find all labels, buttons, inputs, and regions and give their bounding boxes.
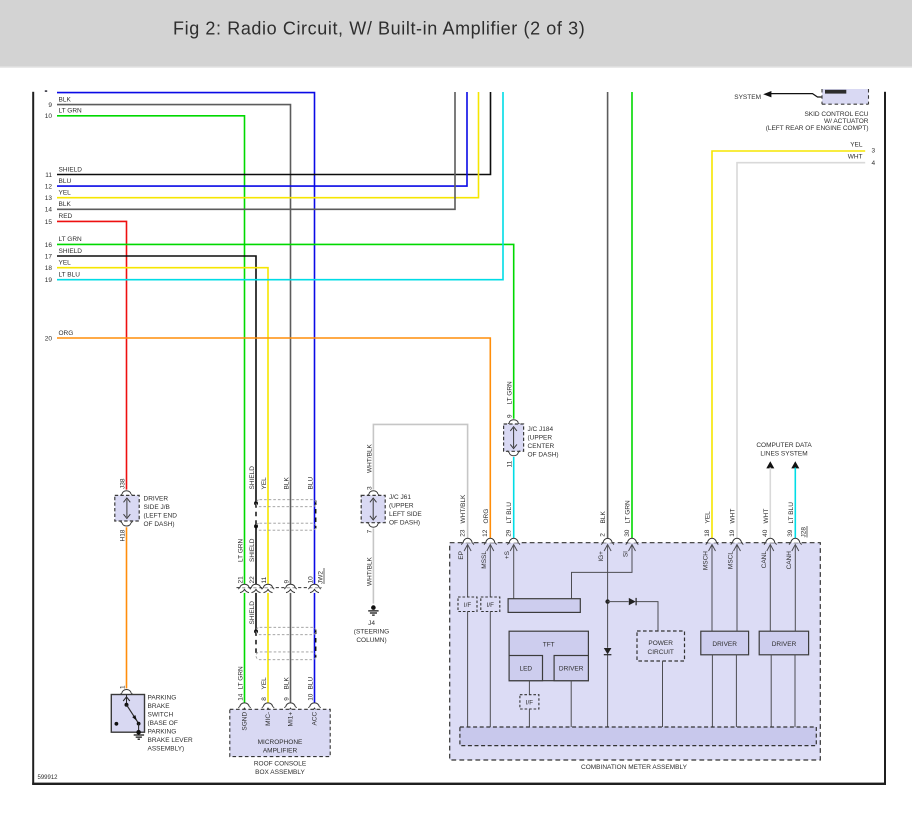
internal wire CANL with arrow xyxy=(767,545,774,632)
connector arc into J/C J61 xyxy=(367,491,379,496)
svg-text:SHIELD: SHIELD xyxy=(249,538,256,562)
connector arc into J/C J184 xyxy=(508,420,520,425)
svg-text:J4: J4 xyxy=(368,620,375,627)
meter entry arc pin 19 xyxy=(731,538,743,544)
ground J4 steering column xyxy=(368,605,378,615)
svg-text:BLK: BLK xyxy=(283,677,290,690)
meter entry arc pin 12 xyxy=(484,538,496,544)
label DRIVER SIDE J/B (LEFT END OF DASH) xyxy=(144,496,178,529)
connector arc pin 10 xyxy=(308,703,320,711)
svg-text:EP: EP xyxy=(458,551,465,560)
svg-text:J28: J28 xyxy=(801,527,808,538)
svg-text:12: 12 xyxy=(482,529,489,537)
connector arc out of driver side J/B xyxy=(120,521,132,526)
svg-text:LT GRN: LT GRN xyxy=(59,236,83,243)
svg-text:LT GRN: LT GRN xyxy=(237,538,244,562)
meter wire color labels above pins xyxy=(460,494,795,524)
junction dot on IG+ xyxy=(605,599,609,603)
wire 3 YEL from skid ecu to meter pin 18 xyxy=(712,141,876,538)
svg-text:11: 11 xyxy=(261,576,268,583)
LT GRN label and pin 9 above J/C J184 xyxy=(506,381,513,418)
svg-text:COLUMN): COLUMN) xyxy=(356,637,386,644)
I/F box 2 xyxy=(481,597,500,727)
arrow from computer data lines (CANH) xyxy=(791,461,799,538)
svg-text:23: 23 xyxy=(459,529,466,537)
wire labels above upper shield section xyxy=(249,466,314,490)
svg-text:CANL: CANL xyxy=(761,551,768,569)
svg-text:BLK: BLK xyxy=(59,96,72,103)
lower shield section: drain dot xyxy=(254,629,258,633)
DRIVER box left xyxy=(701,631,749,727)
svg-text:(UPPER: (UPPER xyxy=(528,435,553,442)
svg-text:14: 14 xyxy=(45,207,53,214)
label SYSTEM xyxy=(734,94,761,101)
label ROOF CONSOLE BOX ASSEMBLY xyxy=(254,760,307,776)
svg-text:TFT: TFT xyxy=(543,642,555,649)
amplifier pin numbers 14 8 9 10 xyxy=(237,693,314,701)
svg-text:LT GRN: LT GRN xyxy=(625,500,632,524)
label J/C J184 (UPPER CENTER OF DASH) xyxy=(528,426,559,459)
upper shield capsule 2 xyxy=(256,523,316,530)
svg-text:LT BLU: LT BLU xyxy=(506,502,513,524)
svg-text:MIC-: MIC- xyxy=(265,712,272,726)
svg-text:20: 20 xyxy=(45,335,53,342)
svg-text:SGND: SGND xyxy=(241,711,248,730)
svg-text:19: 19 xyxy=(45,277,53,284)
wire ORG from H18 down to parking brake switch pin 1 xyxy=(126,527,128,688)
svg-text:RED: RED xyxy=(59,213,73,220)
svg-text:BRAKE: BRAKE xyxy=(148,703,171,710)
svg-text:JW2: JW2 xyxy=(318,571,325,584)
combination meter assembly box xyxy=(450,543,821,760)
svg-text:YEL: YEL xyxy=(59,190,72,197)
connector arc out of J/C J61 xyxy=(367,522,379,527)
SHIELD wire below JW2 xyxy=(249,593,256,631)
svg-text:17: 17 xyxy=(45,253,53,260)
svg-text:BLU: BLU xyxy=(307,677,314,690)
svg-text:21: 21 xyxy=(237,576,244,584)
svg-text:12: 12 xyxy=(45,184,53,191)
wire LT BLU from J184 to meter pin 29 xyxy=(513,457,515,538)
connector arc out of J/C J184 xyxy=(508,451,520,456)
wire 18 YEL: left edge to x268 then down to MIC- pin 8 xyxy=(45,260,268,704)
pin 1 label xyxy=(119,685,126,689)
svg-text:H18: H18 xyxy=(119,529,126,541)
upper shield section: drain junction dots xyxy=(254,501,258,528)
svg-text:SHIELD: SHIELD xyxy=(249,601,256,625)
svg-text:ORG: ORG xyxy=(59,330,74,337)
JW2 connector pair on BLU xyxy=(308,584,320,592)
svg-text:11: 11 xyxy=(45,172,52,179)
svg-text:AMPLIFIER: AMPLIFIER xyxy=(263,748,298,755)
svg-text:15: 15 xyxy=(45,219,53,226)
svg-text:CIRCUIT: CIRCUIT xyxy=(648,649,674,656)
svg-text:SYSTEM: SYSTEM xyxy=(734,94,761,101)
svg-text:39: 39 xyxy=(787,529,794,537)
svg-text:I/F: I/F xyxy=(526,699,533,706)
upper shield dashed drain wire xyxy=(256,501,316,529)
svg-text:SI: SI xyxy=(623,551,630,557)
svg-text:SHIELD: SHIELD xyxy=(249,466,256,490)
wire LT GRN from top to meter pin 30 xyxy=(631,92,633,538)
svg-text:YEL: YEL xyxy=(59,260,72,267)
meter entry arc pin 40 xyxy=(764,538,776,544)
svg-text:DRIVER: DRIVER xyxy=(144,496,169,503)
JW2 label xyxy=(318,568,325,584)
internal wire MSCL with arrow xyxy=(734,545,741,632)
svg-text:J38: J38 xyxy=(119,478,126,489)
JW2 connector pair on YEL xyxy=(262,584,274,592)
wire 14 BLK: left edge to x455 then up to top xyxy=(45,92,455,214)
svg-text:YEL: YEL xyxy=(261,477,268,490)
svg-text:SHIELD: SHIELD xyxy=(59,248,83,255)
svg-text:MSSL: MSSL xyxy=(481,551,488,569)
meter entry arc pin 2 xyxy=(601,538,613,544)
svg-text:MSCH: MSCH xyxy=(703,551,710,570)
svg-text:I/F: I/F xyxy=(464,602,471,609)
lower shield dashed drain xyxy=(256,630,316,658)
svg-text:I/F: I/F xyxy=(487,602,494,609)
svg-text:MI1+: MI1+ xyxy=(287,712,294,727)
svg-text:LINES SYSTEM: LINES SYSTEM xyxy=(760,450,807,457)
svg-text:Fig 2: Radio Circuit, W/ Built: Fig 2: Radio Circuit, W/ Built-in Amplif… xyxy=(173,19,585,39)
wire BLK from top to meter pin 2 xyxy=(607,92,609,538)
POWER CIRCUIT box xyxy=(637,631,685,727)
meter pin numbers xyxy=(459,529,794,537)
svg-text:9: 9 xyxy=(283,697,290,701)
wire 15 RED: left edge to x126.5 then down to J38 xyxy=(45,213,127,489)
svg-text:WHT: WHT xyxy=(848,154,863,161)
pin 11 below J184 xyxy=(506,460,513,467)
wire 8 BLU: left edge to x314.5 then down to ACC pin 10 xyxy=(45,90,315,703)
arrow to skid control ecu xyxy=(763,91,822,97)
svg-text:PARKING: PARKING xyxy=(148,729,177,736)
wire 10 LT GRN: left edge to x244.5 then down to SGND pin 21 xyxy=(45,108,245,704)
I/F box 1 xyxy=(458,597,477,727)
svg-text:4: 4 xyxy=(872,160,876,167)
svg-text:+S: +S xyxy=(504,550,511,559)
unlabeled block xyxy=(508,599,580,613)
J/C J184 box xyxy=(504,424,524,451)
svg-text:OF DASH): OF DASH) xyxy=(144,521,175,528)
diode down on IG+ line xyxy=(604,648,612,655)
svg-text:YEL: YEL xyxy=(261,677,268,690)
svg-text:SHIELD: SHIELD xyxy=(59,166,83,173)
svg-text:BLK: BLK xyxy=(59,201,72,208)
wire 20 ORG: left edge to x490.6 then down to MSSL pin 12 xyxy=(45,330,491,538)
svg-text:SWITCH: SWITCH xyxy=(148,712,174,719)
svg-text:YEL: YEL xyxy=(850,141,863,148)
wire LED to I/F box 3 xyxy=(528,681,530,695)
svg-text:3: 3 xyxy=(872,147,876,154)
svg-text:LT GRN: LT GRN xyxy=(237,666,244,690)
svg-text:COMBINATION METER ASSEMBLY: COMBINATION METER ASSEMBLY xyxy=(581,764,688,771)
JW2 connector pair on LT GRN xyxy=(238,584,250,592)
connector J28 label xyxy=(801,526,808,538)
svg-text:WHT: WHT xyxy=(763,509,770,524)
svg-text:LT BLU: LT BLU xyxy=(788,502,795,524)
svg-text:(LEFT END: (LEFT END xyxy=(144,513,178,520)
JW2 connector pair on SHIELD xyxy=(250,584,262,592)
svg-text:WHT: WHT xyxy=(730,509,737,524)
svg-text:BLK: BLK xyxy=(283,477,290,490)
svg-text:ASSEMBLY): ASSEMBLY) xyxy=(148,746,185,753)
svg-text:DRIVER: DRIVER xyxy=(772,641,797,648)
pin 7 below J61 xyxy=(366,529,373,533)
svg-text:CANH: CANH xyxy=(786,551,793,570)
connector J38 label xyxy=(119,478,126,489)
title bar xyxy=(0,0,912,68)
WHT/BLK label and pin 3 above J61 xyxy=(366,443,373,490)
svg-text:(LEFT REAR OF ENGINE COMPT): (LEFT REAR OF ENGINE COMPT) xyxy=(766,125,869,132)
svg-text:LED: LED xyxy=(519,666,532,673)
svg-text:29: 29 xyxy=(506,529,513,537)
svg-text:POWER: POWER xyxy=(648,640,673,647)
wire WHT/BLK from J61 down to J4 xyxy=(366,528,373,603)
wire 16 LT GRN: left edge to x513.5 then down to J/C J184 xyxy=(45,236,514,419)
svg-text:BRAKE LEVER: BRAKE LEVER xyxy=(148,737,193,744)
connector arc pin 8 xyxy=(262,703,274,711)
svg-text:W/ ACTUATOR: W/ ACTUATOR xyxy=(824,118,869,125)
SHIELD wire continues to JW2 xyxy=(255,526,257,584)
wire 12 BLU: left edge to x467 then up to top xyxy=(45,92,467,191)
svg-text:ROOF CONSOLE: ROOF CONSOLE xyxy=(254,760,307,767)
svg-text:9: 9 xyxy=(506,414,513,418)
connector H18 label xyxy=(119,529,126,541)
svg-text:(UPPER: (UPPER xyxy=(389,503,414,510)
connector arc into parking brake switch xyxy=(120,690,132,695)
connector arc into driver side J/B xyxy=(120,491,132,496)
internal wire +S with arrow xyxy=(510,545,517,599)
meter entry arc pin 18 xyxy=(706,538,718,544)
microphone amplifier box xyxy=(230,709,330,756)
label COMPUTER DATA LINES SYSTEM xyxy=(756,442,812,458)
svg-text:(BASE OF: (BASE OF xyxy=(148,720,178,727)
svg-text:J/C J61: J/C J61 xyxy=(389,494,411,501)
svg-text:ORG: ORG xyxy=(483,509,490,524)
internal wire MSCH with arrow xyxy=(709,545,716,632)
J/C J61 box xyxy=(361,495,385,522)
svg-text:MSCL: MSCL xyxy=(728,551,735,569)
wire 17 SHIELD: left edge to x256 then down (shield drain) xyxy=(45,248,256,502)
wire TFT driver down xyxy=(570,681,572,727)
svg-text:SKID CONTROL ECU: SKID CONTROL ECU xyxy=(804,111,868,118)
svg-text:40: 40 xyxy=(762,529,769,537)
label SKID CONTROL ECU W/ ACTUATOR xyxy=(766,111,869,132)
svg-text:MICROPHONE: MICROPHONE xyxy=(258,739,303,746)
internal wire CANH with arrow xyxy=(792,545,799,632)
JW2 pin numbers xyxy=(237,576,314,584)
svg-text:9: 9 xyxy=(48,102,52,109)
JW2 in-line connector dashed link xyxy=(237,587,322,589)
wire labels above JW2 connector xyxy=(237,538,256,562)
wire 13 YEL: left edge to x478.5 then up to top xyxy=(45,92,479,202)
connector arc pin 9 xyxy=(284,703,296,711)
svg-text:IG+: IG+ xyxy=(598,551,605,562)
label J/C J61 (UPPER LEFT SIDE OF DASH) xyxy=(389,494,422,527)
svg-text:11: 11 xyxy=(506,460,513,467)
meter entry arc pin 30 xyxy=(626,538,638,544)
svg-text:WHT/BLK: WHT/BLK xyxy=(366,443,373,473)
connector arc pin 14 xyxy=(238,703,250,711)
meter entry arc pin 23 xyxy=(461,538,473,544)
svg-text:2: 2 xyxy=(600,533,607,537)
wire WHT/BLK from J/C J61 up and over to meter pin 23 xyxy=(373,424,467,538)
svg-text:8: 8 xyxy=(261,697,268,701)
skid control ecu box (clipped) xyxy=(822,89,869,104)
svg-text:DRIVER: DRIVER xyxy=(712,641,737,648)
svg-text:OF DASH): OF DASH) xyxy=(389,520,420,527)
svg-text:LEFT SIDE: LEFT SIDE xyxy=(389,511,422,518)
svg-text:CENTER: CENTER xyxy=(528,443,555,450)
ground at parking brake switch xyxy=(134,730,144,739)
svg-text:18: 18 xyxy=(704,529,711,537)
JW2 connector pair on BLK xyxy=(284,584,296,592)
svg-text:10: 10 xyxy=(307,693,314,701)
svg-text:7: 7 xyxy=(366,529,373,533)
svg-text:WHT/BLK: WHT/BLK xyxy=(366,556,373,586)
svg-text:LT GRN: LT GRN xyxy=(59,108,83,115)
svg-text:9: 9 xyxy=(283,580,290,584)
svg-text:WHT/BLK: WHT/BLK xyxy=(460,494,467,524)
svg-text:13: 13 xyxy=(45,195,53,202)
svg-text:BOX ASSEMBLY: BOX ASSEMBLY xyxy=(255,769,305,776)
internal wire SI with arrow and elbow xyxy=(572,545,636,599)
meter entry arc pin 29 xyxy=(508,538,520,544)
svg-text:BLU: BLU xyxy=(59,178,72,185)
meter internal pin labels xyxy=(458,550,793,570)
svg-text:YEL: YEL xyxy=(705,511,712,524)
label COMBINATION METER ASSEMBLY xyxy=(581,764,688,771)
svg-text:10: 10 xyxy=(307,576,314,584)
internal wire IG+ with arrow xyxy=(604,545,611,728)
svg-text:10: 10 xyxy=(45,113,53,120)
wire 9 BLK: left edge to x290.5 then down to MI1+ pin 9 xyxy=(48,96,290,703)
upper shield capsule 1 xyxy=(256,500,316,507)
svg-text:18: 18 xyxy=(45,265,53,272)
svg-text:SIDE J/B: SIDE J/B xyxy=(144,504,170,511)
svg-text:LT GRN: LT GRN xyxy=(506,381,513,405)
svg-text:14: 14 xyxy=(237,693,244,701)
diagram frame border xyxy=(32,92,886,785)
meter bottom rail xyxy=(460,727,816,746)
svg-text:DRIVER: DRIVER xyxy=(559,666,584,673)
wire 19 LT BLU: left edge to x503 then up to top xyxy=(45,92,503,284)
svg-text:OF DASH): OF DASH) xyxy=(528,452,559,459)
internal wire EP with arrow xyxy=(464,545,471,598)
svg-text:19: 19 xyxy=(729,529,736,537)
DRIVER box inside TFT xyxy=(554,656,588,681)
svg-text:LT BLU: LT BLU xyxy=(59,272,81,279)
svg-text:J/C J184: J/C J184 xyxy=(528,426,554,433)
wire 11 SHIELD: left edge to x490.5 then up to top xyxy=(45,92,490,179)
label PARKING BRAKE SWITCH xyxy=(148,695,193,753)
LED box xyxy=(509,656,542,681)
meter entry arc pin 39 xyxy=(789,538,801,544)
label J4 (STEERING COLUMN) xyxy=(354,620,389,644)
svg-text:22: 22 xyxy=(249,576,256,584)
svg-text:COMPUTER DATA: COMPUTER DATA xyxy=(756,442,812,449)
svg-text:3: 3 xyxy=(366,486,373,490)
arrow from computer data lines (CANL) xyxy=(766,461,774,538)
driver side J/B box (J38/H18) xyxy=(115,495,139,521)
svg-text:599912: 599912 xyxy=(38,775,59,781)
lower shield capsule 1 xyxy=(256,627,316,634)
svg-text:(STEERING: (STEERING xyxy=(354,628,389,635)
parking brake switch box xyxy=(111,695,144,733)
svg-text:PARKING: PARKING xyxy=(148,695,177,702)
DRIVER box right xyxy=(759,631,808,727)
TFT box xyxy=(509,631,588,681)
branch to power circuit with diode xyxy=(608,598,658,631)
svg-text:1: 1 xyxy=(119,685,126,689)
wire 4 WHT from skid ecu to meter pin 19 xyxy=(737,154,876,539)
svg-text:BLU: BLU xyxy=(307,477,314,490)
svg-text:30: 30 xyxy=(624,529,631,537)
svg-text:ACC: ACC xyxy=(311,712,318,726)
svg-text:16: 16 xyxy=(45,242,53,249)
internal wire MSSL with arrow xyxy=(487,545,494,598)
svg-text:BLK: BLK xyxy=(600,511,607,524)
I/F box 3 xyxy=(520,695,539,727)
wire labels above microphone amplifier xyxy=(237,666,314,690)
lower shield capsule 2 xyxy=(256,652,316,660)
figure number 599912 xyxy=(38,775,59,781)
